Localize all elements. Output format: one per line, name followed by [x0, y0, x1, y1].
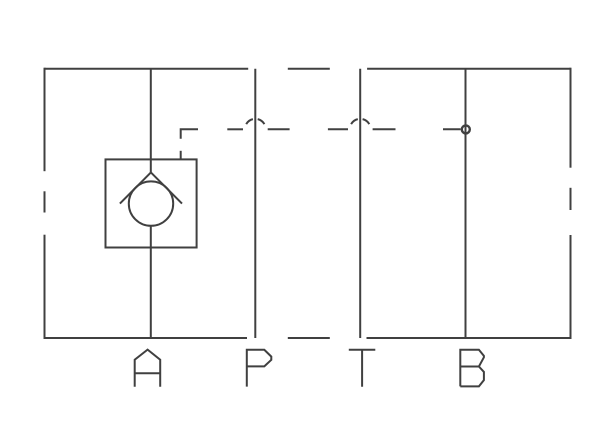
port line A lower [150, 226, 152, 338]
pilot hop over T right arc [363, 119, 370, 124]
pilot hop over P right arc [258, 119, 265, 124]
plate boundary top dash [288, 68, 330, 70]
label P [247, 350, 271, 387]
label A [135, 350, 161, 387]
check valve seat left [120, 172, 151, 203]
pilot line corner dash [181, 129, 198, 139]
pilot line dash 4 [328, 128, 348, 130]
plate boundary left segment upper [44, 68, 46, 172]
plate boundary right segment lower [570, 235, 572, 339]
plate boundary left segment lower [44, 235, 46, 339]
pilot junction circle on B [462, 125, 470, 133]
pilot hop over T left arc [351, 119, 358, 124]
plate boundary top segment right [367, 68, 570, 70]
check valve seat right [151, 172, 182, 203]
pilot line dash 5 [373, 128, 396, 130]
plate boundary left dash [44, 191, 46, 212]
pilot line dash 6 [443, 128, 461, 130]
pilot line dash 3 [268, 128, 290, 130]
plate boundary bottom dash [288, 337, 330, 339]
label T [349, 350, 376, 387]
plate boundary right dash [570, 188, 572, 210]
plate boundary top segment left [45, 68, 249, 70]
pilot hop over P left arc [246, 119, 253, 124]
pilot line vertical dash [180, 151, 182, 159]
plate boundary bottom segment right [367, 337, 571, 339]
port line B [465, 69, 467, 338]
port line T [359, 69, 361, 338]
check valve ball [129, 181, 173, 225]
port line A upper [150, 69, 152, 173]
pilot line dash 2 [227, 128, 243, 130]
check valve enclosure box [106, 159, 197, 247]
plate boundary right segment upper [570, 68, 572, 168]
plate boundary bottom segment left [45, 337, 248, 339]
label B [460, 350, 484, 387]
port line P [254, 69, 256, 338]
